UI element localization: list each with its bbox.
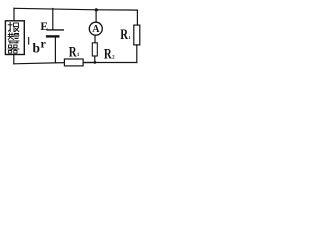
resistor R box (right edge) (134, 25, 140, 45)
char 器 (8, 45, 19, 53)
svg-text:E: E (40, 21, 48, 33)
wire left-bottom lead (13, 55, 15, 64)
junction dot bottom (93, 61, 96, 64)
wire right edge top (136, 10, 138, 25)
battery long plate (47, 29, 63, 31)
ammeter top lead (95, 10, 97, 22)
ammeter bottom lead (94, 35, 96, 43)
ammeter circle U1 (89, 22, 102, 35)
wire bottom (14, 63, 92, 64)
svg-text:R: R (69, 44, 77, 60)
wire left-top lead (13, 8, 15, 20)
device box (alarm 报警器) (5, 21, 24, 55)
stray mark (28, 38, 30, 45)
svg-text:R: R (104, 46, 112, 62)
ammeter junction dot top (95, 8, 98, 11)
wire top (14, 8, 137, 10)
svg-text:b: b (33, 40, 41, 55)
resistor R1 box (horizontal, bottom) (64, 59, 83, 66)
wire right edge bottom (136, 45, 138, 63)
svg-text:A: A (92, 24, 100, 35)
battery short thick plate (47, 35, 58, 37)
battery bottom lead (54, 38, 56, 63)
resistor R2 bottom lead (94, 56, 96, 62)
resistor R2 box (92, 43, 97, 56)
battery top lead (52, 9, 54, 30)
svg-text:r: r (41, 37, 47, 51)
wire bottom right segment (83, 62, 137, 64)
char 警 (8, 33, 19, 43)
char 报 (8, 23, 18, 32)
svg-text:R: R (120, 27, 128, 43)
